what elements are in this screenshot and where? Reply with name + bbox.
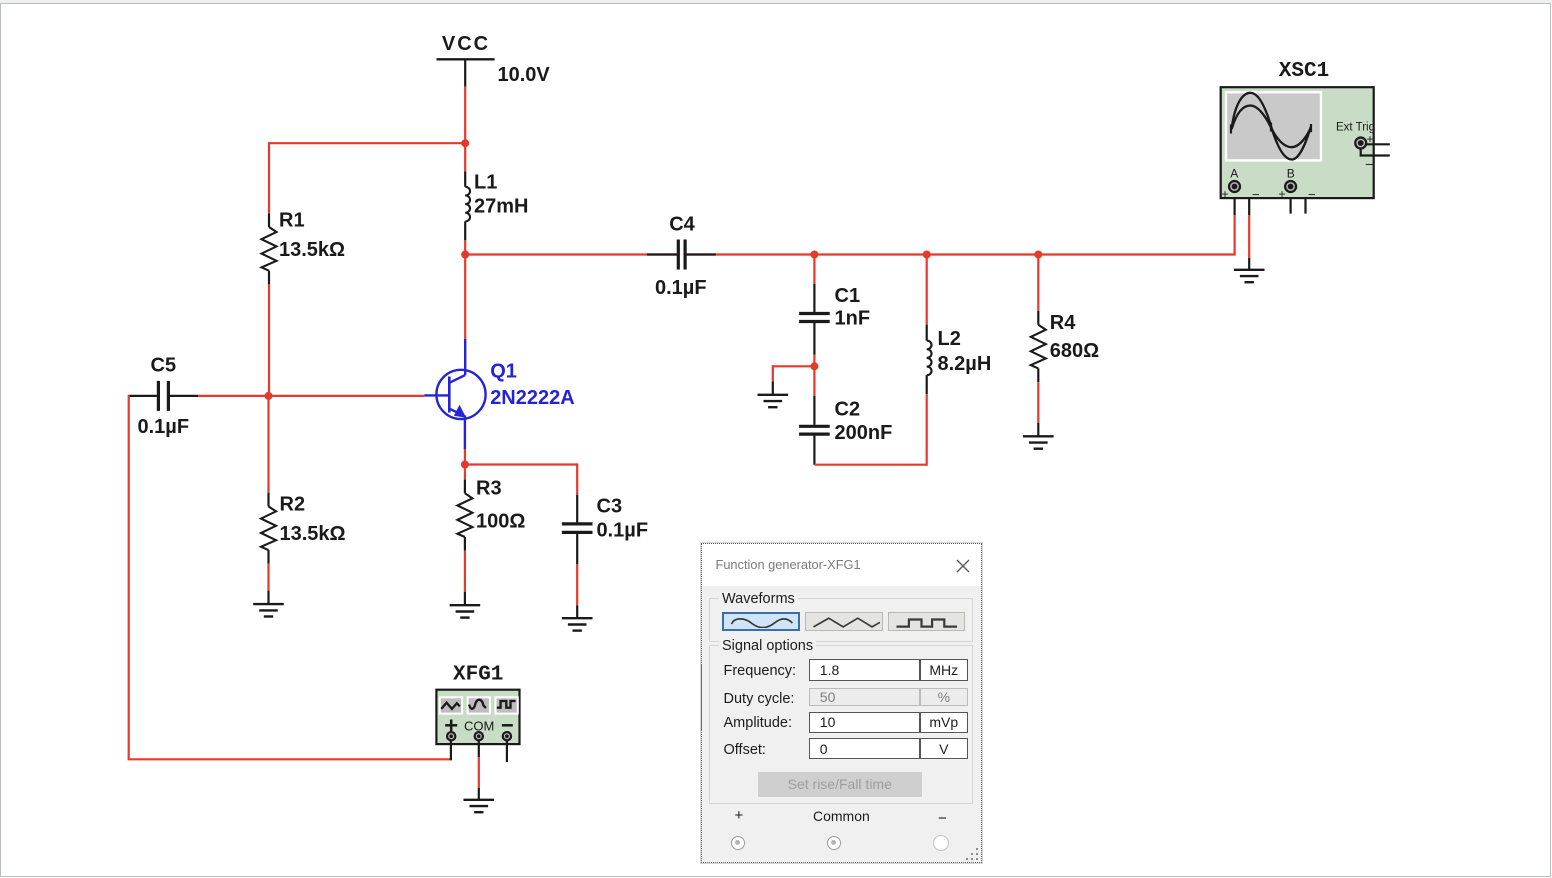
junction node OUT — [461, 251, 469, 259]
svg-text:L2: L2 — [938, 328, 961, 350]
instrument XSC1 oscilloscope — [1221, 87, 1390, 202]
wire node L2 drop — [926, 255, 928, 325]
wire node E to C3 corner — [464, 463, 577, 465]
ground C3 ground — [562, 605, 593, 630]
wire main line right of C4 — [686, 253, 1234, 255]
ground R2 ground — [253, 591, 284, 617]
svg-text:VCC: VCC — [442, 33, 490, 55]
wire C3 corner drop — [576, 463, 578, 494]
wire C1 to mid node — [813, 355, 815, 368]
svg-text:C3: C3 — [597, 496, 623, 518]
group Waveforms — [709, 598, 973, 642]
svg-text:0.1µF: 0.1µF — [655, 277, 707, 299]
wire XFG1 COM lead — [478, 740, 480, 757]
wire Q1 emitter to node E — [464, 449, 466, 466]
resistor R3 — [457, 480, 472, 551]
wire scope A- pin — [1238, 187, 1249, 216]
wire R3 to ground — [464, 551, 466, 592]
wire C5 to base node — [198, 395, 269, 397]
junction node E — [461, 461, 469, 469]
wire base node to Q1 — [269, 395, 425, 397]
terminal minus — [938, 810, 947, 827]
svg-text:2N2222A: 2N2222A — [490, 387, 575, 409]
svg-text:R2: R2 — [280, 494, 306, 516]
ground scope ground — [1234, 258, 1265, 282]
junction base node — [265, 392, 273, 400]
svg-text:0.1µF: 0.1µF — [597, 520, 649, 542]
svg-text:C1: C1 — [835, 285, 861, 307]
waveform button square — [888, 612, 966, 632]
inductor L2 — [927, 325, 932, 395]
wire scope B+ stub — [1289, 190, 1291, 214]
canvas top strip — [0, 0, 1552, 3]
wire main line left of C4 — [465, 253, 677, 255]
dialog Function generator-XFG1 — [701, 543, 982, 863]
wire C3 to ground — [576, 564, 578, 605]
svg-text:100Ω: 100Ω — [476, 511, 525, 533]
svg-text:B: B — [1287, 167, 1295, 181]
svg-text:R4: R4 — [1050, 312, 1076, 334]
capacitor C3 — [562, 495, 593, 565]
wire mid node to C2 — [813, 366, 815, 396]
wire L2 to tank bottom — [926, 394, 928, 466]
capacitor C1 — [799, 284, 830, 355]
wire node E to R3 — [464, 465, 466, 480]
svg-text:C5: C5 — [151, 355, 177, 377]
svg-text:−: − — [1308, 187, 1316, 202]
resistor R1 — [262, 213, 277, 284]
wire R2 to ground — [267, 564, 269, 591]
junction node C top — [461, 139, 469, 147]
instrument XFG1 function generator — [436, 690, 519, 744]
wire node R4 drop — [1037, 255, 1039, 312]
ground XFG1 ground — [464, 788, 495, 812]
svg-text:Q1: Q1 — [490, 361, 517, 383]
close button — [956, 559, 970, 573]
capacitor C5 — [129, 381, 199, 411]
svg-text:1nF: 1nF — [835, 308, 871, 330]
capacitor C4 — [647, 240, 716, 270]
svg-text:0.1µF: 0.1µF — [138, 416, 190, 438]
wire scope B- stub — [1294, 187, 1306, 214]
wire node C1 drop — [813, 255, 815, 284]
wire scope A+ riser — [1233, 215, 1235, 256]
inductor L1 — [465, 171, 470, 240]
wire R1 top drop — [268, 142, 270, 213]
svg-text:C2: C2 — [835, 399, 861, 421]
wire L1 to node OUT — [464, 241, 466, 255]
svg-text:L1: L1 — [474, 172, 497, 194]
svg-text:+: + — [1279, 187, 1286, 201]
junction mid node — [810, 362, 818, 370]
svg-text:−: − — [1252, 187, 1260, 202]
row Offset — [724, 742, 766, 758]
ground mid stub ground — [758, 381, 789, 407]
row Duty cycle — [724, 691, 795, 707]
resistor R2 — [261, 493, 276, 564]
button Set rise/Fall time — [758, 772, 923, 797]
wire mid stub horizontal — [773, 365, 815, 367]
resistor R4 — [1031, 311, 1046, 382]
wire mid stub drop — [772, 365, 774, 381]
wire base node to R2 — [267, 396, 269, 493]
svg-text:C4: C4 — [669, 214, 695, 236]
wire tank bottom run — [814, 464, 926, 466]
svg-text:+: + — [1222, 187, 1229, 201]
svg-text:10.0V: 10.0V — [498, 64, 551, 86]
svg-text:27mH: 27mH — [474, 196, 528, 218]
wire XFG1 plus lead — [450, 740, 452, 760]
waveform button sine (selected) — [722, 612, 800, 632]
svg-text:XSC1: XSC1 — [1279, 60, 1329, 83]
transistor Q1 — [424, 254, 485, 450]
terminal Common — [813, 808, 870, 824]
resize grip — [966, 847, 980, 861]
wire VCC to node C — [464, 87, 466, 145]
capacitor C2 — [799, 396, 830, 465]
wire scope A+ pin — [1233, 190, 1235, 215]
svg-text:XFG1: XFG1 — [453, 664, 503, 687]
svg-text:13.5kΩ: 13.5kΩ — [280, 523, 346, 545]
wire XFG1 minus lead — [506, 740, 508, 762]
wire R4 to ground — [1037, 382, 1039, 423]
svg-text:13.5kΩ: 13.5kΩ — [279, 239, 345, 261]
wire node C to R1 top — [269, 142, 464, 144]
wire R1 to base node — [268, 284, 270, 396]
terminal plus — [735, 807, 744, 824]
wire bottom run to XFG1 — [128, 758, 452, 760]
svg-text:680Ω: 680Ω — [1050, 340, 1099, 362]
waveform button triangle — [805, 612, 883, 632]
ground R4 ground — [1023, 423, 1054, 449]
svg-text:200nF: 200nF — [835, 422, 893, 444]
ground R3 ground — [450, 592, 481, 618]
svg-text:8.2µH: 8.2µH — [938, 353, 992, 375]
svg-text:−: − — [1365, 156, 1373, 172]
left edge dark segment — [701, 664, 703, 730]
svg-text:R3: R3 — [476, 478, 502, 500]
junction node C1 branch — [810, 251, 818, 259]
junction node R4 branch — [1034, 251, 1042, 259]
wire XFG1 COM drop — [478, 757, 480, 788]
row Amplitude — [724, 715, 793, 731]
wire C5 left drop — [128, 395, 130, 759]
row Frequency — [724, 663, 797, 679]
power VCC — [437, 59, 495, 86]
wire scope A- drop — [1248, 215, 1250, 258]
svg-text:R1: R1 — [279, 210, 305, 232]
group Signal options — [709, 645, 973, 804]
wire node C to L1 — [464, 143, 466, 171]
svg-text:A: A — [1230, 167, 1238, 181]
junction node L2 branch — [923, 251, 931, 259]
